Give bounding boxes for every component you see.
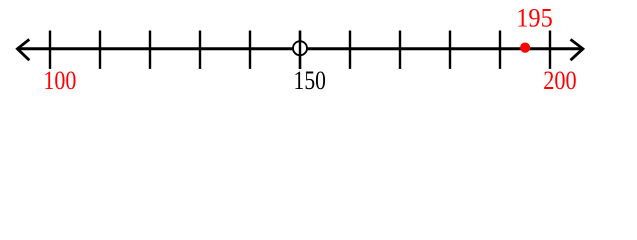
svg-text:100: 100: [43, 66, 76, 95]
svg-text:150: 150: [294, 66, 326, 95]
svg-text:195: 195: [516, 4, 553, 33]
svg-text:200: 200: [543, 66, 576, 95]
